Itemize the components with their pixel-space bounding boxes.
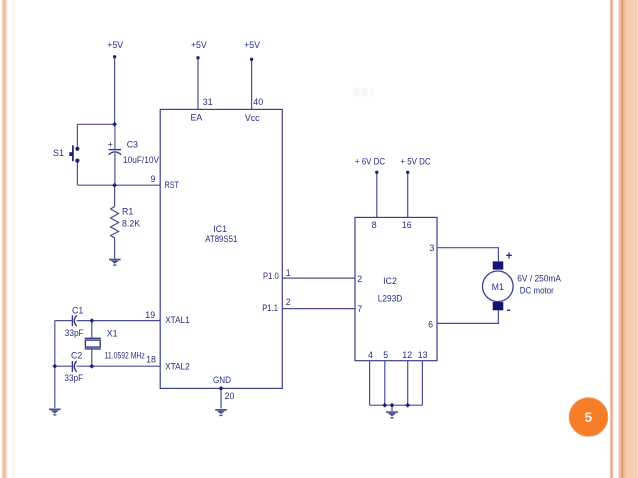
resistor R1 [111, 207, 141, 238]
svg-text:9: 9 [150, 174, 155, 184]
svg-text:5: 5 [585, 410, 593, 425]
node junction +5V/S1 top [112, 122, 117, 127]
svg-text:4: 4 [368, 350, 373, 360]
svg-text:-: - [507, 303, 511, 317]
svg-text:C3: C3 [127, 140, 138, 150]
svg-text:+: + [506, 250, 513, 262]
ground (IC2 bus) [386, 412, 398, 418]
capacitor C3 [108, 124, 159, 165]
capacitor C2 [64, 351, 83, 383]
ground (below R1) [109, 260, 121, 266]
svg-text:6: 6 [428, 319, 433, 329]
power +5V DC label [400, 157, 431, 174]
svg-text:GND: GND [213, 375, 231, 385]
svg-text:19: 19 [145, 310, 155, 320]
wire IC2 pin6 to motor [437, 310, 498, 323]
svg-text:16: 16 [402, 220, 412, 230]
wire S1 bottom horizontal [77, 184, 114, 186]
capacitor C1 [65, 305, 84, 338]
svg-text:+: + [108, 140, 113, 150]
svg-text:L293D: L293D [378, 293, 403, 303]
wire R1 bottom lead [114, 238, 116, 259]
svg-text:C1: C1 [72, 305, 83, 315]
wire XTAL2 net [55, 365, 72, 367]
wire 5V DC supply to IC2 pin16 [407, 174, 409, 218]
svg-text:EA: EA [191, 113, 203, 123]
svg-text:31: 31 [203, 97, 213, 107]
svg-text:33pF: 33pF [65, 328, 84, 338]
power +5V label 1 [107, 40, 123, 58]
svg-text:DC motor: DC motor [520, 286, 554, 296]
wire R1 top lead [114, 185, 116, 206]
svg-text:P1.1: P1.1 [262, 303, 278, 313]
svg-text:P1.0: P1.0 [263, 271, 279, 281]
wire ground bus [370, 404, 423, 406]
svg-text:RST: RST [165, 180, 180, 190]
power +5V supply 1 wire [114, 58, 116, 124]
svg-text:C2: C2 [71, 351, 82, 361]
IC1 AT89S51 [160, 109, 282, 388]
svg-text:10uF/10V: 10uF/10V [123, 155, 159, 165]
power +5V supply 2 wire [197, 59, 199, 109]
wire P1.0 to IC2 pin2 [282, 277, 355, 279]
svg-text:2: 2 [357, 274, 362, 284]
wire X1 bottom lead [91, 349, 93, 366]
wire IC2 pin4 down [369, 361, 371, 406]
wire S1 top horizontal [77, 123, 114, 125]
svg-text:18: 18 [146, 355, 156, 365]
wire node RST horizontal [115, 184, 161, 186]
svg-text:X1: X1 [107, 329, 118, 339]
svg-text:3: 3 [429, 243, 434, 253]
node junction C2/X1 [89, 364, 94, 369]
svg-text:12: 12 [402, 350, 412, 360]
wire left rail vertical [54, 321, 56, 408]
svg-text:IC1: IC1 [213, 224, 227, 234]
power +5V label 2 [191, 40, 207, 59]
wire 6V DC supply to IC2 pin8 [376, 174, 378, 218]
power +5V label 3 [244, 40, 260, 61]
svg-text:6V / 250mA: 6V / 250mA [517, 274, 561, 284]
IC2 L293D [355, 217, 437, 360]
node junction left rail C2 [52, 364, 57, 369]
wire XTAL1 net [55, 320, 72, 322]
switch S1 [53, 145, 80, 162]
wire IC2 pin5 down [384, 361, 386, 406]
node junction C1/X1 [89, 318, 94, 323]
wire ground stub IC2 [391, 405, 393, 411]
motor M1 [483, 261, 514, 310]
svg-text:XTAL2: XTAL2 [165, 361, 190, 371]
node junction bus ground [390, 403, 395, 408]
svg-text:XTAL1: XTAL1 [165, 315, 190, 325]
wire IC2 pin3 to motor [437, 248, 498, 262]
svg-text:AT89S51: AT89S51 [205, 234, 237, 244]
svg-text:M1: M1 [492, 282, 504, 292]
svg-text:40: 40 [253, 97, 263, 107]
crystal X1 [85, 329, 145, 361]
wire X1 top lead [91, 321, 93, 338]
svg-text:20: 20 [225, 391, 235, 401]
wire IC2 pin12 down [407, 361, 409, 406]
svg-text:+5V: +5V [107, 40, 123, 50]
ground (IC1 pin 20) [215, 410, 227, 416]
svg-text:5: 5 [383, 350, 388, 360]
wire IC1 GND stub [220, 388, 222, 408]
svg-text:13: 13 [418, 350, 428, 360]
wire S1 bottom vertical [76, 162, 78, 185]
power +6V DC label [355, 157, 386, 174]
svg-text:1: 1 [286, 268, 291, 278]
node junction bus pin5 [382, 403, 387, 408]
svg-text:33pF: 33pF [64, 373, 83, 383]
svg-text:2: 2 [286, 297, 291, 307]
svg-text:8.2K: 8.2K [122, 218, 140, 228]
svg-text:Vcc: Vcc [245, 113, 260, 123]
power +5V supply 3 wire [251, 61, 253, 110]
svg-text:R1: R1 [122, 207, 133, 217]
wire S1 top vertical [76, 124, 78, 147]
svg-text:8: 8 [372, 220, 377, 230]
svg-text:+ 6V DC: + 6V DC [355, 157, 386, 167]
wire IC2 pin13 down [421, 361, 423, 406]
svg-text:7: 7 [357, 304, 362, 314]
wire C3 bottom lead [114, 153, 116, 185]
svg-text:IC2: IC2 [383, 276, 397, 286]
svg-text:+ 5V DC: + 5V DC [400, 157, 431, 167]
ground (left rail) [49, 409, 61, 415]
node junction bus pin12 [405, 403, 410, 408]
svg-text:11.0592 MHz: 11.0592 MHz [105, 351, 145, 361]
svg-text:+5V: +5V [244, 40, 260, 50]
node junction IC1 GND pin [219, 386, 224, 391]
wire P1.1 to IC2 pin7 [282, 308, 355, 310]
svg-text:+5V: +5V [191, 40, 207, 50]
node junction RST [112, 183, 117, 188]
svg-text:S1: S1 [53, 148, 64, 158]
